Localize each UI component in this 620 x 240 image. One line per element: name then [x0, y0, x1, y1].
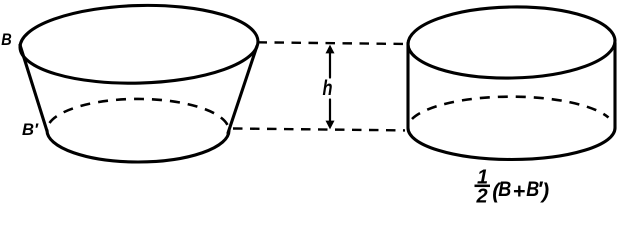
frustum left slant side: [20, 45, 47, 131]
svg-text:B: B: [1, 30, 12, 49]
svg-text:2: 2: [475, 186, 487, 208]
frustum bottom back dashed arc: [50, 99, 229, 126]
frustum top ellipse: [19, 2, 259, 86]
cylinder left side: [406, 43, 409, 128]
cylinder top ellipse: [407, 5, 615, 80]
svg-text:B′: B′: [22, 120, 39, 139]
arrow shaft lower segment: [329, 100, 331, 123]
cylinder right side: [613, 43, 616, 128]
cylinder bottom back dashed arc: [412, 97, 609, 119]
svg-text:h: h: [323, 76, 333, 100]
arrow shaft upper segment: [329, 48, 331, 78]
svg-text:B: B: [498, 177, 511, 201]
top dashed connector line: [258, 42, 407, 44]
arrowhead down: [326, 121, 335, 130]
svg-text:+: +: [513, 179, 526, 203]
frustum right slant side: [228, 46, 257, 133]
frustum bottom front solid arc: [47, 131, 229, 163]
bottom dashed connector line: [233, 129, 405, 131]
cylinder bottom front solid arc: [408, 128, 615, 160]
arrowhead up: [326, 45, 335, 54]
svg-text:): ): [540, 179, 549, 203]
formula fraction bar: [475, 185, 491, 188]
